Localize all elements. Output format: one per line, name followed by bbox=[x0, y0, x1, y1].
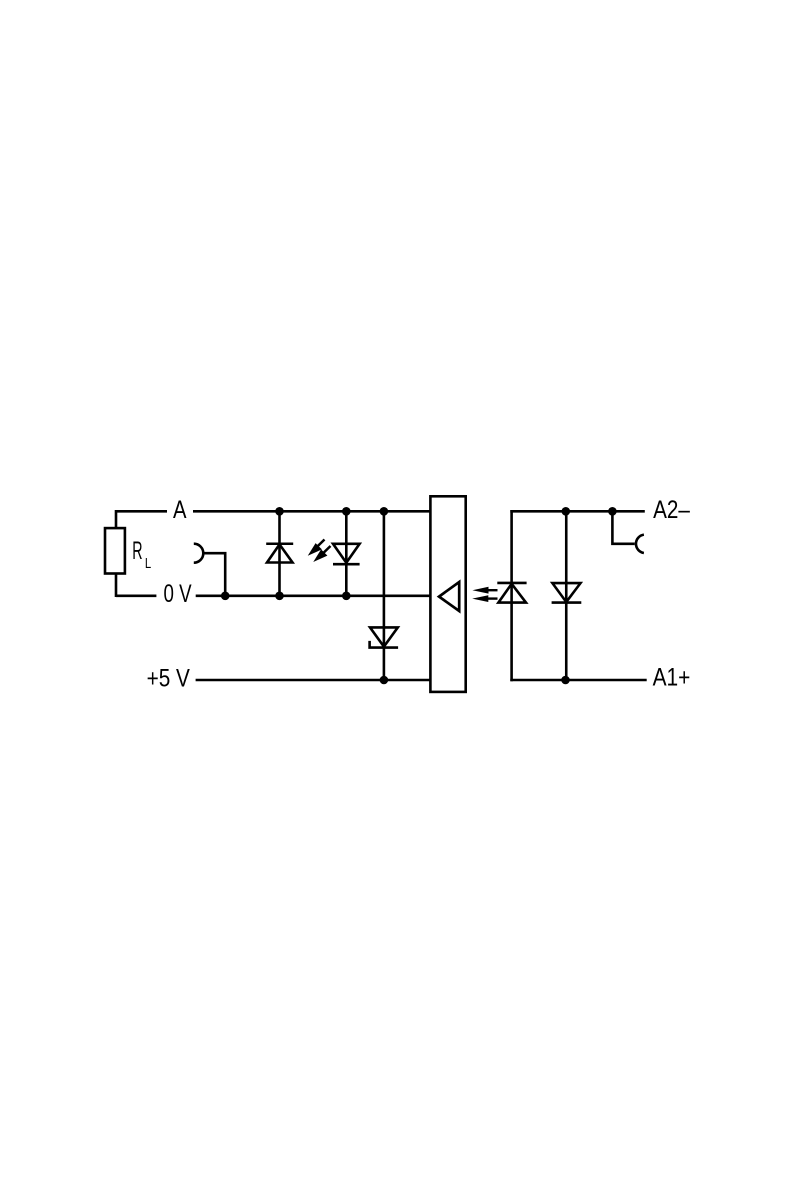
svg-text:R: R bbox=[132, 537, 142, 565]
diode D4 triangle bbox=[552, 583, 580, 602]
junction node 0V/socket bbox=[221, 592, 230, 601]
LED D2 cathode bar bbox=[333, 563, 360, 566]
wire socket stub to 0V bbox=[203, 553, 225, 596]
junction node +5V/D3 bbox=[380, 676, 389, 685]
junction node A2/D4 bbox=[562, 507, 571, 516]
zener D3 vertical wire bbox=[383, 511, 386, 680]
junction node A/D1 bbox=[275, 507, 284, 516]
amplifier triangle in box bbox=[439, 582, 459, 611]
svg-text:L: L bbox=[145, 555, 151, 572]
diode D4 cathode bar bbox=[552, 601, 582, 604]
input LED cathode bar bbox=[497, 582, 526, 585]
junction node 0V/D2 bbox=[342, 592, 351, 601]
wire A-line right segment to coupler box bbox=[193, 510, 430, 513]
junction node A/D2 bbox=[342, 507, 351, 516]
LED D2 emission arrow 1 bbox=[308, 540, 325, 556]
junction node A2/socket bbox=[608, 507, 617, 516]
wire 0V-line right segment to coupler box bbox=[196, 594, 431, 597]
svg-text:A: A bbox=[173, 496, 187, 524]
LED D2 emission arrow 2 bbox=[313, 546, 330, 562]
socket contact arc left bbox=[194, 544, 204, 563]
wire +5V-line to coupler box bbox=[196, 679, 431, 682]
junction node 0V/D1 bbox=[275, 592, 284, 601]
optocoupler box U1 bbox=[430, 496, 465, 692]
wire right circuit left vertical bbox=[510, 510, 513, 681]
opto light arrow 1 bbox=[472, 587, 497, 594]
wire resistor bottom lead bbox=[115, 574, 118, 598]
socket contact arc right bbox=[636, 535, 644, 553]
junction node A/D3 bbox=[380, 507, 389, 516]
diode D1 triangle bbox=[267, 544, 293, 562]
diode D1 vertical wire bbox=[278, 511, 281, 596]
LED D2 triangle bbox=[333, 544, 360, 563]
svg-text:0 V: 0 V bbox=[164, 580, 192, 608]
wire socket stub right from A2- bbox=[612, 511, 634, 544]
wire 0V-line left segment bbox=[116, 594, 156, 597]
diode D4 vertical wire bbox=[565, 511, 568, 680]
wire A2- top line bbox=[510, 510, 645, 513]
svg-text:+5 V: +5 V bbox=[147, 664, 191, 692]
wire A-line left segment bbox=[116, 510, 167, 513]
svg-text:A2–: A2– bbox=[653, 496, 690, 524]
LED D2 vertical wire bbox=[345, 511, 348, 596]
zener D3 cathode bar with bent end bbox=[370, 641, 399, 648]
opto light arrow 2 bbox=[472, 595, 497, 602]
wire left vertical top lead to resistor bbox=[115, 510, 118, 528]
resistor RL bbox=[105, 528, 125, 573]
diode D1 cathode bar bbox=[266, 542, 293, 545]
input LED triangle bbox=[498, 584, 526, 603]
zener D3 triangle bbox=[370, 627, 398, 646]
svg-text:A1+: A1+ bbox=[653, 663, 691, 691]
wire A1+ bottom line bbox=[510, 679, 646, 682]
junction node A1/D4 bbox=[561, 676, 570, 685]
